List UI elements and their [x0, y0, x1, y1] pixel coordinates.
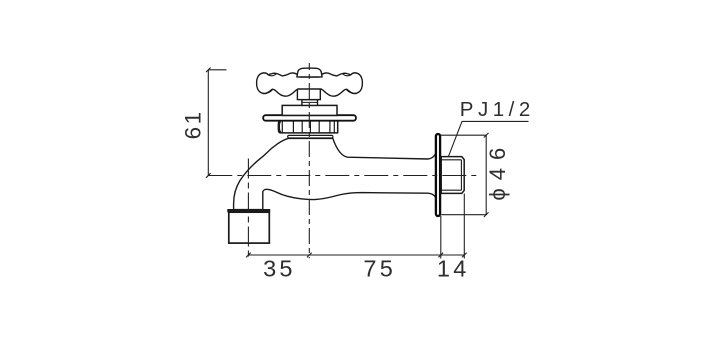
- escutcheon plate: [263, 115, 356, 121]
- gland nut: [282, 105, 337, 115]
- bottom dimension line 35/75/14: [246, 194, 467, 259]
- svg-text:14: 14: [437, 256, 470, 282]
- svg-text:75: 75: [363, 256, 396, 282]
- wheel spoke curl bottom-right: [346, 89, 356, 93]
- ribbed collar: [278, 121, 337, 133]
- handle cap: [297, 68, 322, 77]
- leader PJ1/2: [449, 121, 529, 156]
- centerline horizontal body axis: [208, 175, 477, 177]
- centerline vertical valve axis: [308, 63, 310, 258]
- svg-text:35: 35: [263, 256, 296, 282]
- spout cup rim: [227, 209, 270, 213]
- wheel spoke curl top-right: [342, 74, 351, 76]
- dimension 61 line: [206, 68, 227, 178]
- spout cup body: [229, 212, 269, 243]
- svg-text:61: 61: [180, 109, 205, 139]
- handle hub: [297, 88, 320, 100]
- handle wheel: [257, 73, 363, 96]
- bonnet band: [288, 135, 333, 138]
- faucet body outline: [234, 138, 438, 209]
- wall flange: [436, 134, 440, 216]
- wheel spoke curl top-left: [268, 74, 277, 76]
- centerline spout axis: [247, 159, 249, 259]
- hex nut U: [441, 157, 464, 194]
- stem block: [302, 100, 318, 106]
- svg-text:PJ1/2: PJ1/2: [460, 98, 535, 121]
- svg-text:ϕ46: ϕ46: [485, 140, 510, 201]
- dimension phi46: [441, 133, 489, 217]
- wheel spoke curl bottom-left: [263, 89, 273, 93]
